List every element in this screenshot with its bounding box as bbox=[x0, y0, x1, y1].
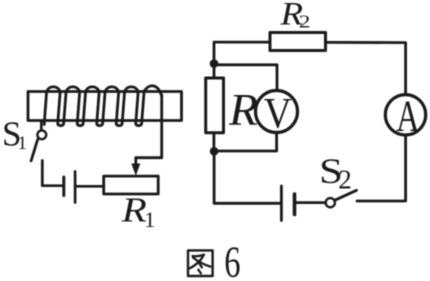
wire coil left lead bbox=[40, 121, 43, 130]
junction node bottom bbox=[210, 147, 219, 156]
switch S2 blade bbox=[335, 190, 357, 200]
wire S1 terminal to battery B1 bbox=[42, 161, 62, 186]
caption box of CJK glyph tu (figure) bbox=[188, 250, 213, 276]
resistor R2 body bbox=[270, 33, 326, 51]
iron core bar bbox=[28, 92, 182, 121]
switch S1 blade bbox=[31, 140, 37, 161]
wire top loop left and R2 leads bbox=[214, 42, 406, 94]
junction node top bbox=[210, 59, 219, 68]
svg-text:1: 1 bbox=[144, 207, 155, 232]
coil windings on core bbox=[44, 86, 162, 126]
battery B1 short plate bbox=[62, 177, 65, 196]
svg-text:2: 2 bbox=[299, 11, 311, 32]
wire bottom node to battery B2 bbox=[214, 151, 280, 203]
svg-text:R: R bbox=[121, 191, 147, 230]
wire switch S2 to ammeter bbox=[357, 135, 406, 201]
switch S1 contact circle bbox=[37, 130, 46, 139]
wire node to voltmeter bbox=[216, 65, 277, 91]
svg-text:6: 6 bbox=[224, 239, 240, 281]
rheostat R1 body bbox=[104, 176, 159, 194]
wire battery B1 to rheostat R1 bbox=[76, 185, 103, 188]
wire coil right lead to rheostat slider bbox=[136, 95, 162, 167]
svg-text:2: 2 bbox=[338, 165, 352, 195]
rheostat R1 slider arrowhead bbox=[131, 164, 140, 176]
ammeter A1 circle bbox=[385, 95, 425, 135]
wire node to resistor R bbox=[213, 66, 216, 78]
svg-text:V: V bbox=[264, 89, 292, 136]
wire resistor R to bottom node bbox=[212, 133, 215, 148]
battery B2 long plate bbox=[280, 186, 283, 221]
battery B2 short plate bbox=[293, 194, 297, 215]
voltmeter V1 circle bbox=[256, 91, 298, 133]
battery B1 long plate bbox=[74, 172, 77, 203]
svg-text:A: A bbox=[396, 93, 419, 141]
resistor R body bbox=[206, 78, 224, 133]
switch S2 contact circle bbox=[326, 198, 335, 207]
wire voltmeter to bottom node bbox=[218, 133, 277, 152]
svg-text:R: R bbox=[228, 85, 258, 135]
svg-text:1: 1 bbox=[18, 133, 28, 154]
wire battery B2 to switch S2 bbox=[296, 201, 325, 204]
